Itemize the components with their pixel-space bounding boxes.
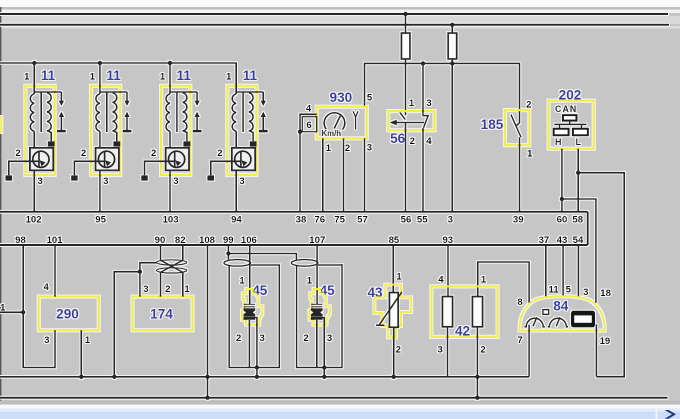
- svg-text:CAN: CAN: [555, 104, 577, 114]
- svg-text:2: 2: [345, 143, 350, 154]
- svg-text:108: 108: [199, 235, 216, 246]
- 930 pin1 wire to ECU 76: [322, 138, 324, 211]
- 45b yellow plug outline: [309, 289, 329, 325]
- 42 pin4 wire from ECU 93: [447, 245, 449, 297]
- svg-text:98: 98: [15, 235, 26, 246]
- svg-text:54: 54: [573, 235, 584, 246]
- junction drain branch: [226, 251, 230, 255]
- top separator gray line: [0, 7, 680, 10]
- scrollbar right arrow: [665, 410, 676, 419]
- CAN H branch wire to cluster pin 18: [562, 199, 596, 303]
- shield lens 1: [224, 260, 251, 267]
- wire ECU 108 to ground bus 2: [207, 245, 209, 398]
- svg-text:2: 2: [526, 100, 531, 111]
- 42 resistor A: [442, 297, 452, 327]
- 174 pin2 wire: [160, 272, 162, 296]
- svg-text:43: 43: [557, 235, 568, 246]
- wire fuse2 top: [451, 25, 453, 33]
- svg-text:1: 1: [0, 302, 6, 313]
- offpage yellow sliver: [0, 117, 1, 132]
- 45 sensor flange: [244, 316, 256, 319]
- CAN L wire to ECU 58: [577, 149, 579, 212]
- 45 pin2 wire: [248, 320, 250, 368]
- svg-text:930: 930: [330, 90, 353, 105]
- svg-text:94: 94: [231, 214, 242, 225]
- 930 sensor glyph: [353, 111, 358, 129]
- junction 174 pin3 / drain: [138, 270, 142, 274]
- svg-text:3: 3: [327, 333, 332, 344]
- junction coil3 feed: [168, 61, 172, 65]
- shield lens 2: [291, 260, 318, 267]
- 202 stub: [569, 121, 571, 125]
- svg-text:75: 75: [334, 214, 345, 225]
- 45 yellow plug outline: [242, 289, 262, 325]
- svg-text:202: 202: [559, 88, 582, 103]
- 290 pin3 wire loop to ECU 98: [23, 245, 55, 368]
- 42 resistor B: [472, 297, 482, 327]
- 45b pin2 wire: [316, 320, 318, 368]
- junction 42 pin2 / bus1: [475, 375, 479, 379]
- junction wire98 / stub: [21, 310, 25, 314]
- 45b sensor body: [311, 308, 323, 316]
- 84 pin5 wire from ECU 43: [562, 245, 564, 297]
- junction CAN L branch: [576, 171, 580, 175]
- svg-text:103: 103: [163, 214, 179, 225]
- 84 gauge 2: [548, 318, 568, 327]
- 45 signal wire pin1: [249, 245, 251, 304]
- svg-text:2: 2: [396, 344, 401, 355]
- junction 290 pin1 / bus: [79, 375, 83, 379]
- 45b sensor hatch: [311, 304, 322, 307]
- svg-text:1: 1: [527, 148, 533, 159]
- light band between supply rails: [0, 16, 680, 24]
- 45b sensor flange: [311, 316, 323, 319]
- relay 290: yellow box: [39, 297, 99, 331]
- svg-text:85: 85: [389, 235, 400, 246]
- svg-text:2: 2: [410, 136, 415, 147]
- shield drain wire to ground bus: [114, 272, 140, 377]
- svg-text:107: 107: [309, 235, 325, 246]
- svg-text:1: 1: [409, 98, 415, 109]
- svg-text:1: 1: [307, 275, 313, 286]
- svg-text:90: 90: [155, 235, 166, 246]
- 930 gauge arc: [324, 113, 345, 130]
- svg-text:19: 19: [600, 336, 611, 347]
- CAN node 202: yellow box: [549, 101, 594, 149]
- ECU connector bottom edge (bus B): [0, 244, 588, 246]
- wire fuse2 down to ECU pin 3: [451, 59, 453, 212]
- svg-text:18: 18: [600, 288, 611, 299]
- 290 pin1 wire to ground bus: [80, 330, 82, 377]
- svg-text:38: 38: [296, 214, 307, 225]
- shield drain wire from ECU 99: [227, 245, 229, 260]
- supply rail 30: [0, 13, 668, 15]
- svg-text:4: 4: [426, 136, 432, 147]
- left window border: [0, 7, 1, 405]
- ECU connector top edge (bus A): [0, 211, 588, 213]
- svg-text:1: 1: [481, 274, 487, 285]
- svg-text:Km/h: Km/h: [322, 129, 342, 138]
- 930 pin6 connector box: [302, 117, 316, 132]
- svg-text:99: 99: [223, 235, 234, 246]
- svg-text:H: H: [555, 137, 562, 147]
- 930 gauge needle: [334, 115, 341, 129]
- CAN H wire to ECU 60: [561, 149, 563, 212]
- 84 gauge 1: [525, 318, 545, 327]
- shield box 2: [297, 264, 342, 368]
- shield to ground stub: [256, 368, 258, 377]
- drain branch wire to shield 2: [228, 254, 296, 260]
- ignition coil 11 (cyl 1): [6, 63, 66, 212]
- junction coil2 feed: [98, 61, 102, 65]
- svg-text:2: 2: [480, 344, 485, 355]
- junction stub / bus: [255, 375, 259, 379]
- 56 pin2 wire to ECU 56: [405, 123, 407, 212]
- svg-text:37: 37: [539, 235, 550, 246]
- 43 pin2 wire to ground bus: [393, 327, 395, 377]
- svg-text:3: 3: [143, 284, 148, 295]
- wire fuse1 top: [405, 14, 407, 33]
- svg-text:55: 55: [417, 214, 428, 225]
- scrollbar blue bar: [0, 409, 680, 419]
- 45 sensor body: [244, 308, 256, 316]
- ignition coil 11 (cyl 3): [141, 63, 201, 212]
- svg-text:39: 39: [513, 214, 524, 225]
- 43 NTC diagonal: [376, 292, 402, 325]
- 56 wiper arrow: [396, 122, 424, 124]
- junction coil1 feed: [32, 61, 36, 65]
- svg-text:95: 95: [95, 214, 106, 225]
- svg-text:1: 1: [239, 275, 245, 286]
- speedometer 930: yellow box: [317, 107, 367, 139]
- junction 108 / bus1: [205, 375, 209, 379]
- 84 pin3 wire from ECU 54: [577, 245, 579, 298]
- twist lens upper: [156, 260, 186, 265]
- 185 switch blade: [511, 115, 521, 138]
- 45 sensor hatch: [244, 304, 255, 307]
- svg-text:82: 82: [175, 235, 186, 246]
- svg-text:2: 2: [303, 333, 308, 344]
- 84 yellow dome outline: [519, 296, 604, 330]
- 43 yellow outline: [374, 285, 411, 338]
- svg-text:8: 8: [517, 297, 523, 308]
- svg-text:2: 2: [165, 284, 170, 295]
- twisted pair crossing wires: [161, 260, 183, 272]
- svg-text:42: 42: [455, 323, 471, 338]
- 202 H node box: [554, 129, 569, 136]
- 45 pin3 wire: [254, 318, 257, 368]
- svg-text:11: 11: [549, 285, 560, 296]
- 930 pin2 wire to ECU 75: [343, 138, 345, 211]
- svg-text:3: 3: [448, 214, 453, 225]
- 56 pin3 stub and slope: [423, 111, 428, 128]
- junction pin3 / shield box 2: [322, 365, 326, 369]
- wire right feed bus (fuse2 to 930 pin5 and 185 pin2): [365, 63, 520, 123]
- 45b signal wire pin1: [316, 245, 318, 304]
- 930 pin3 wire to ECU 57: [364, 138, 366, 211]
- svg-text:84: 84: [553, 298, 569, 313]
- ignition coil 11 (cyl 4): [207, 63, 267, 212]
- 45b pin3 wire: [321, 318, 324, 368]
- CAN L branch wire to cluster pin 19: [578, 173, 624, 377]
- junction drain / bus: [112, 375, 116, 379]
- 56 pin4 wire to ECU 55: [422, 128, 424, 212]
- svg-text:4: 4: [44, 282, 50, 293]
- svg-text:45: 45: [320, 283, 336, 298]
- svg-text:6: 6: [306, 120, 311, 131]
- svg-text:5: 5: [566, 285, 572, 296]
- shield box 1: [229, 265, 279, 368]
- junction CAN H branch: [560, 197, 564, 201]
- resistors 42: [431, 245, 529, 400]
- 84 pin19 wire: [595, 324, 597, 376]
- ground bus 2: [0, 397, 668, 399]
- junction 108 / bus2: [205, 396, 209, 400]
- junction 42 pin2 / bus2: [475, 396, 479, 400]
- ECU connector right edge: [587, 212, 589, 245]
- svg-text:102: 102: [26, 214, 42, 225]
- svg-text:1: 1: [326, 143, 332, 154]
- top white title band: [0, 0, 680, 7]
- 202 bus bar: [554, 123, 586, 125]
- svg-text:60: 60: [557, 214, 568, 225]
- wire fuse1 to 56 pin1: [405, 59, 407, 115]
- stub wire to offpage component: [0, 311, 23, 313]
- svg-text:5: 5: [367, 93, 373, 104]
- junction 56 pin3 / feed bus: [421, 61, 425, 65]
- 930 pin4 wire: [300, 114, 317, 212]
- svg-text:56: 56: [390, 131, 406, 146]
- 202 right stub: [581, 124, 583, 128]
- 202 left stub: [559, 124, 561, 128]
- svg-text:2: 2: [236, 333, 241, 344]
- 84 small indicator square: [543, 310, 549, 315]
- svg-text:3: 3: [583, 287, 588, 298]
- ignition coil 11 (cyl 2): [71, 63, 131, 212]
- 202 top node box: [563, 115, 577, 121]
- 202 L node box: [573, 129, 588, 136]
- 185 upper contact hook: [516, 123, 519, 126]
- scrollbar button separator: [656, 409, 658, 419]
- supply rail 15: [0, 24, 669, 26]
- svg-text:76: 76: [314, 214, 325, 225]
- svg-text:56: 56: [401, 214, 412, 225]
- svg-text:58: 58: [572, 214, 583, 225]
- svg-text:4: 4: [306, 103, 312, 114]
- svg-text:1: 1: [396, 271, 402, 282]
- brake switch 185: yellow box: [505, 110, 529, 145]
- junction pin6 box / wire: [298, 130, 302, 134]
- 43 wire from ECU 85: [392, 245, 394, 293]
- svg-text:7: 7: [517, 335, 522, 346]
- twist lens lower: [156, 268, 186, 273]
- junction 43 pin2 / bus: [392, 375, 396, 379]
- shield 2 to ground stub: [323, 368, 325, 377]
- sensor 174: yellow box: [133, 297, 193, 331]
- air flow sensor 56: yellow box: [388, 111, 434, 130]
- svg-text:106: 106: [241, 235, 257, 246]
- instrument cluster 84: [517, 245, 611, 377]
- fuse F1: [401, 33, 410, 59]
- fuse F2: [448, 33, 457, 59]
- temp sensor 43: [367, 245, 411, 379]
- svg-text:4: 4: [438, 274, 444, 285]
- knock sensor 45 (2): [291, 245, 342, 379]
- white strip above scrollbar: [0, 405, 680, 409]
- svg-text:101: 101: [47, 235, 64, 246]
- 56 pin3 wire up to feed bus: [422, 63, 424, 111]
- svg-text:3: 3: [260, 333, 265, 344]
- knock sensor 45 (1): [224, 245, 296, 379]
- white strip under separator: [0, 10, 680, 13]
- svg-text:1: 1: [85, 335, 91, 346]
- svg-text:174: 174: [150, 307, 173, 322]
- 84 display: [571, 311, 595, 328]
- wire coil feed bus: [0, 63, 236, 94]
- junction pin3 / shield box: [255, 365, 259, 369]
- svg-text:1: 1: [184, 284, 190, 295]
- 42 pin1 wire from cluster pin8 branch: [478, 262, 529, 303]
- 43 resistor body: [389, 293, 398, 328]
- junction stub2 / bus: [322, 375, 326, 379]
- junction fuse2 / feed bus: [450, 61, 454, 65]
- svg-text:3: 3: [426, 98, 431, 109]
- svg-text:290: 290: [56, 307, 79, 322]
- svg-text:57: 57: [357, 214, 368, 225]
- junction fuse1-rail: [403, 12, 407, 16]
- ground bus 1: [0, 376, 529, 378]
- svg-text:3: 3: [44, 335, 49, 346]
- svg-text:3: 3: [367, 143, 372, 154]
- 42 pin2 wire to bus2: [476, 327, 478, 398]
- 185 pin1 wire to ECU 39: [519, 137, 521, 212]
- 174 pin1 wire: [182, 272, 184, 296]
- 56 wiper blade: [400, 112, 406, 119]
- 42 pin3 wire to bus: [447, 327, 449, 377]
- svg-text:93: 93: [442, 235, 453, 246]
- junction fuse2-rail: [450, 23, 454, 27]
- svg-text:185: 185: [481, 117, 504, 132]
- light strip under rail 2: [0, 26, 680, 29]
- 290 pin4 wire from ECU 101: [54, 245, 56, 297]
- svg-text:3: 3: [438, 344, 443, 355]
- 42 yellow box: [431, 286, 497, 337]
- bottom gray strip above scrollbar: [0, 401, 680, 405]
- wire ECU 90 to twist: [160, 245, 162, 260]
- wire ECU 82 to twist: [182, 245, 184, 260]
- svg-text:L: L: [576, 137, 582, 147]
- 174 pin3 shield link: [140, 263, 157, 297]
- 84 pin11 wire from ECU 37: [545, 245, 547, 298]
- 84 pin7 wire / ground bus end: [528, 325, 530, 377]
- svg-text:45: 45: [252, 283, 268, 298]
